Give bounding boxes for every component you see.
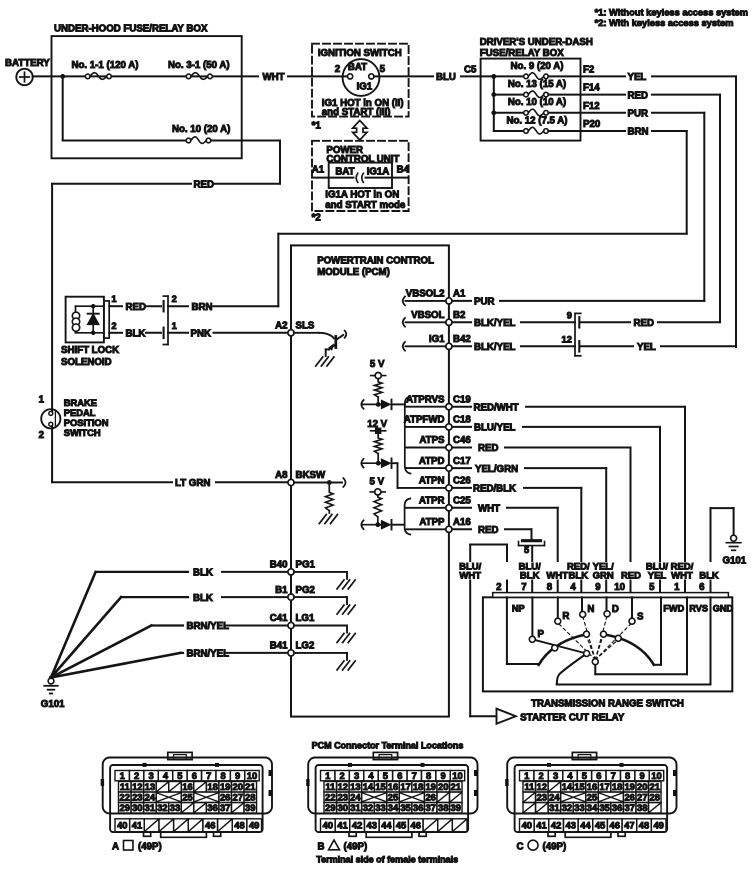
svg-text:FWD: FWD: [663, 604, 684, 614]
svg-text:34: 34: [388, 802, 399, 813]
svg-text:B1: B1: [275, 585, 288, 596]
svg-text:37: 37: [425, 802, 435, 813]
svg-text:GRN: GRN: [593, 571, 614, 582]
svg-text:47: 47: [624, 819, 634, 830]
svg-text:40: 40: [117, 819, 127, 830]
svg-text:16: 16: [388, 781, 398, 792]
svg-text:49: 49: [249, 819, 259, 830]
svg-text:2: 2: [539, 770, 544, 781]
svg-text:10: 10: [614, 582, 625, 593]
svg-text:LG1: LG1: [296, 613, 315, 624]
svg-text:ATPD: ATPD: [419, 456, 445, 467]
svg-text:20: 20: [637, 781, 647, 792]
svg-text:B40: B40: [270, 560, 288, 571]
svg-text:No. 1-1 (120 A): No. 1-1 (120 A): [72, 60, 139, 71]
svg-text:No. 10 (20 A): No. 10 (20 A): [172, 124, 230, 135]
svg-text:1: 1: [111, 293, 116, 304]
svg-text:4: 4: [163, 770, 169, 781]
svg-text:9: 9: [567, 310, 572, 320]
svg-text:49: 49: [653, 819, 663, 830]
svg-text:17: 17: [599, 781, 609, 792]
svg-text:30: 30: [132, 802, 142, 813]
svg-text:B: B: [318, 842, 325, 853]
svg-text:ATPP: ATPP: [419, 517, 445, 528]
svg-text:VBSOL: VBSOL: [411, 310, 444, 321]
svg-text:RED/BLK: RED/BLK: [473, 484, 516, 495]
svg-text:S: S: [637, 612, 644, 623]
svg-text:43: 43: [566, 819, 576, 830]
svg-text:39: 39: [245, 802, 255, 813]
svg-text:10: 10: [247, 770, 257, 781]
svg-text:FUSE/RELAY BOX: FUSE/RELAY BOX: [480, 48, 565, 59]
svg-text:A1: A1: [453, 289, 466, 300]
svg-text:32: 32: [562, 802, 572, 813]
svg-text:PG2: PG2: [296, 585, 315, 596]
svg-text:2: 2: [496, 582, 501, 593]
svg-text:*2: *2: [312, 213, 321, 224]
svg-text:42: 42: [551, 819, 561, 830]
svg-text:BLK/YEL: BLK/YEL: [474, 318, 516, 329]
svg-text:45: 45: [396, 819, 406, 830]
svg-text:PNK: PNK: [191, 329, 211, 340]
svg-text:4: 4: [368, 770, 374, 781]
svg-text:46: 46: [205, 819, 215, 830]
svg-text:22: 22: [120, 792, 130, 803]
svg-text:NP: NP: [512, 604, 525, 614]
svg-text:11: 11: [524, 781, 534, 792]
svg-text:13: 13: [350, 781, 360, 792]
svg-text:41: 41: [337, 819, 347, 830]
svg-text:29: 29: [120, 802, 130, 813]
svg-text:B42: B42: [453, 334, 471, 345]
svg-text:C46: C46: [453, 435, 471, 446]
svg-text:24: 24: [145, 792, 156, 803]
svg-text:8: 8: [625, 770, 630, 781]
svg-text:No. 12 (7.5 A): No. 12 (7.5 A): [506, 115, 567, 126]
svg-text:2: 2: [134, 770, 139, 781]
svg-text:4: 4: [570, 582, 576, 593]
svg-text:BAT: BAT: [335, 166, 354, 177]
svg-text:44: 44: [580, 819, 591, 830]
svg-text:5: 5: [383, 770, 388, 781]
svg-text:*1: *1: [312, 121, 322, 132]
svg-text:22: 22: [325, 792, 335, 803]
svg-text:12: 12: [338, 781, 348, 792]
svg-text:BLK: BLK: [569, 571, 589, 582]
svg-text:RED: RED: [478, 525, 498, 536]
svg-text:9: 9: [639, 770, 644, 781]
svg-text:5: 5: [177, 770, 182, 781]
svg-text:35: 35: [599, 802, 609, 813]
svg-text:PUR: PUR: [628, 109, 648, 120]
svg-text:C5: C5: [464, 65, 477, 76]
svg-text:and START (III): and START (III): [322, 107, 391, 118]
svg-text:WHT: WHT: [459, 571, 481, 582]
svg-text:21: 21: [451, 781, 461, 792]
svg-text:and START mode: and START mode: [325, 200, 406, 211]
svg-text:15: 15: [574, 781, 584, 792]
svg-text:PCM Connector Terminal Locatio: PCM Connector Terminal Locations: [312, 741, 464, 751]
svg-text:33: 33: [375, 802, 385, 813]
svg-text:8: 8: [547, 582, 553, 593]
svg-text:POWERTRAIN CONTROL: POWERTRAIN CONTROL: [317, 256, 434, 267]
svg-text:WHT: WHT: [671, 571, 693, 582]
svg-text:C25: C25: [453, 496, 471, 507]
svg-text:26: 26: [624, 792, 634, 803]
svg-text:3: 3: [354, 770, 359, 781]
svg-text:R: R: [562, 611, 569, 622]
svg-text:37: 37: [220, 802, 230, 813]
svg-text:16: 16: [182, 781, 192, 792]
svg-text:32: 32: [363, 802, 373, 813]
svg-text:20: 20: [233, 781, 243, 792]
svg-text:34: 34: [587, 802, 598, 813]
svg-text:A2: A2: [275, 321, 287, 332]
svg-text:6: 6: [192, 770, 197, 781]
svg-text:BRN/YEL: BRN/YEL: [187, 649, 230, 660]
svg-text:TRANSMISSION RANGE SWITCH: TRANSMISSION RANGE SWITCH: [531, 699, 684, 710]
svg-text:1: 1: [674, 582, 680, 593]
svg-text:35: 35: [400, 802, 410, 813]
svg-text:YEL: YEL: [637, 342, 656, 353]
svg-text:ATPR: ATPR: [419, 496, 445, 507]
svg-text:WHT: WHT: [546, 571, 568, 582]
svg-text:BLK: BLK: [520, 571, 540, 582]
svg-text:BLK: BLK: [699, 571, 719, 582]
svg-text:BAT: BAT: [348, 62, 367, 73]
svg-text:IG1: IG1: [357, 82, 373, 93]
svg-text:6: 6: [699, 582, 705, 593]
svg-text:RED: RED: [194, 179, 214, 190]
svg-text:7: 7: [206, 770, 211, 781]
svg-text:RED: RED: [478, 443, 498, 454]
svg-text:42: 42: [352, 819, 362, 830]
svg-text:2: 2: [340, 770, 345, 781]
svg-text:IG1A: IG1A: [367, 166, 390, 177]
svg-text:31: 31: [145, 802, 155, 813]
svg-text:37: 37: [624, 802, 634, 813]
svg-text:(49P): (49P): [344, 842, 368, 853]
svg-text:No. 9 (20 A): No. 9 (20 A): [511, 61, 564, 72]
svg-text:36: 36: [612, 802, 622, 813]
svg-text:12: 12: [562, 334, 572, 344]
svg-text:23: 23: [132, 792, 142, 803]
svg-text:27: 27: [637, 792, 647, 803]
svg-text:48: 48: [639, 819, 649, 830]
svg-text:B41: B41: [270, 641, 288, 652]
svg-text:41: 41: [132, 819, 142, 830]
svg-text:17: 17: [400, 781, 410, 792]
svg-text:36: 36: [413, 802, 423, 813]
svg-text:11: 11: [120, 781, 130, 792]
svg-text:C26: C26: [453, 476, 471, 487]
svg-text:2: 2: [335, 64, 340, 75]
svg-text:WHT: WHT: [263, 72, 285, 83]
svg-text:YEL: YEL: [628, 72, 647, 83]
svg-text:BRN/YEL: BRN/YEL: [187, 621, 230, 632]
svg-text:6: 6: [596, 770, 601, 781]
svg-text:No. 10 (10 A): No. 10 (10 A): [508, 97, 566, 108]
svg-text:12: 12: [132, 781, 142, 792]
svg-text:LG2: LG2: [296, 641, 315, 652]
svg-text:1: 1: [39, 394, 45, 405]
svg-text:VBSOL2: VBSOL2: [406, 289, 445, 300]
svg-text:5: 5: [582, 770, 587, 781]
svg-text:7: 7: [521, 582, 526, 593]
svg-text:RED: RED: [634, 318, 654, 329]
svg-text:10: 10: [452, 770, 462, 781]
svg-text:31: 31: [350, 802, 360, 813]
svg-text:A16: A16: [453, 517, 471, 528]
svg-text:G101: G101: [41, 699, 65, 710]
svg-text:21: 21: [650, 781, 660, 792]
svg-text:ATPRVS: ATPRVS: [406, 394, 445, 405]
svg-text:ATPN: ATPN: [419, 476, 445, 487]
svg-text:MODULE (PCM): MODULE (PCM): [317, 267, 390, 278]
svg-text:1: 1: [172, 321, 177, 331]
svg-text:1: 1: [524, 770, 529, 781]
svg-text:IG1: IG1: [429, 334, 445, 345]
svg-text:D: D: [612, 604, 619, 615]
svg-text:2: 2: [39, 430, 44, 441]
svg-text:RED/WHT: RED/WHT: [474, 402, 519, 413]
svg-text:A: A: [112, 842, 119, 853]
svg-text:BLK: BLK: [126, 329, 146, 340]
svg-text:BLK/YEL: BLK/YEL: [474, 342, 516, 353]
svg-text:P20: P20: [583, 119, 600, 130]
svg-text:9: 9: [595, 582, 601, 593]
svg-text:38: 38: [438, 802, 448, 813]
svg-text:3: 3: [148, 770, 153, 781]
svg-text:3: 3: [553, 770, 558, 781]
svg-text:ATPS: ATPS: [419, 435, 445, 446]
svg-text:7: 7: [412, 770, 417, 781]
svg-text:9: 9: [440, 770, 445, 781]
svg-text:28: 28: [245, 792, 255, 803]
svg-text:PG1: PG1: [296, 560, 316, 571]
svg-text:SLS: SLS: [296, 321, 315, 332]
svg-text:SWITCH: SWITCH: [64, 427, 101, 438]
svg-text:(49P): (49P): [138, 842, 162, 853]
svg-text:25: 25: [182, 792, 192, 803]
svg-text:15: 15: [375, 781, 385, 792]
svg-text:21: 21: [245, 781, 255, 792]
svg-text:2: 2: [111, 320, 116, 331]
svg-text:No. 13 (15 A): No. 13 (15 A): [508, 79, 566, 90]
svg-text:F14: F14: [583, 83, 600, 94]
svg-text:7: 7: [611, 770, 616, 781]
svg-text:39: 39: [451, 802, 461, 813]
svg-text:ATPFWD: ATPFWD: [404, 415, 445, 426]
svg-text:C: C: [517, 842, 524, 853]
svg-text:5: 5: [524, 545, 529, 555]
svg-text:BRN: BRN: [628, 127, 649, 138]
svg-text:BKSW: BKSW: [296, 470, 326, 481]
svg-text:C41: C41: [270, 613, 288, 624]
svg-text:5 V: 5 V: [370, 359, 385, 370]
svg-text:*2: With keyless access system: *2: With keyless access system: [595, 18, 734, 28]
svg-text:N: N: [587, 604, 594, 615]
svg-text:10: 10: [651, 770, 661, 781]
svg-text:43: 43: [367, 819, 377, 830]
svg-text:14: 14: [562, 781, 573, 792]
svg-text:23: 23: [338, 792, 348, 803]
svg-text:4: 4: [567, 770, 573, 781]
svg-text:P: P: [538, 629, 545, 640]
svg-text:31: 31: [549, 802, 559, 813]
svg-text:41: 41: [536, 819, 546, 830]
svg-text:BATTERY: BATTERY: [5, 58, 50, 69]
svg-text:14: 14: [363, 781, 374, 792]
svg-text:19: 19: [425, 781, 435, 792]
svg-text:30: 30: [338, 802, 348, 813]
svg-text:C18: C18: [453, 415, 471, 426]
svg-text:16: 16: [587, 781, 597, 792]
svg-text:5: 5: [380, 64, 386, 75]
svg-text:19: 19: [624, 781, 634, 792]
svg-text:F2: F2: [583, 64, 594, 75]
svg-text:46: 46: [411, 819, 421, 830]
svg-text:18: 18: [207, 781, 217, 792]
svg-text:25: 25: [388, 792, 398, 803]
svg-text:5 V: 5 V: [370, 477, 385, 488]
svg-text:20: 20: [438, 781, 448, 792]
svg-text:DRIVER'S UNDER-DASH: DRIVER'S UNDER-DASH: [480, 37, 593, 48]
svg-text:BRN: BRN: [192, 302, 213, 313]
svg-text:A1: A1: [312, 164, 325, 175]
svg-text:33: 33: [574, 802, 584, 813]
svg-text:23: 23: [537, 792, 547, 803]
svg-text:YEL/GRN: YEL/GRN: [475, 464, 518, 475]
svg-text:GND: GND: [713, 604, 734, 614]
svg-text:RVS: RVS: [689, 604, 708, 614]
svg-text:YEL: YEL: [648, 571, 667, 582]
svg-text:1: 1: [325, 770, 330, 781]
svg-text:RED: RED: [628, 90, 648, 101]
svg-text:G101: G101: [723, 555, 747, 566]
svg-text:2: 2: [172, 294, 177, 304]
svg-text:UNDER-HOOD FUSE/RELAY BOX: UNDER-HOOD FUSE/RELAY BOX: [54, 24, 208, 35]
svg-text:33: 33: [170, 802, 180, 813]
svg-text:BLK: BLK: [193, 568, 213, 579]
svg-text:38: 38: [637, 802, 647, 813]
svg-text:PUR: PUR: [474, 297, 494, 308]
svg-text:5: 5: [649, 582, 655, 593]
svg-text:36: 36: [207, 802, 217, 813]
svg-text:F12: F12: [583, 101, 600, 112]
svg-text:18: 18: [612, 781, 622, 792]
svg-text:SOLENOID: SOLENOID: [61, 357, 112, 368]
svg-text:24: 24: [549, 792, 560, 803]
svg-text:LT GRN: LT GRN: [175, 478, 210, 489]
svg-text:1: 1: [120, 770, 125, 781]
svg-text:27: 27: [233, 792, 243, 803]
svg-text:40: 40: [323, 819, 333, 830]
svg-text:BLU: BLU: [436, 72, 456, 83]
svg-text:BLK: BLK: [193, 593, 213, 604]
svg-text:B2: B2: [453, 310, 465, 321]
svg-text:*1: Without keyless access sys: *1: Without keyless access system: [595, 8, 748, 18]
svg-text:11: 11: [325, 781, 335, 792]
svg-text:(49P): (49P): [543, 842, 567, 853]
svg-text:26: 26: [220, 792, 230, 803]
svg-text:46: 46: [610, 819, 620, 830]
svg-text:C17: C17: [453, 456, 471, 467]
svg-text:29: 29: [325, 802, 335, 813]
svg-text:24: 24: [350, 792, 361, 803]
svg-text:Terminal side of female termin: Terminal side of female terminals: [316, 855, 458, 865]
svg-text:45: 45: [595, 819, 605, 830]
svg-text:19: 19: [220, 781, 230, 792]
svg-text:C19: C19: [453, 394, 471, 405]
svg-text:BLU/YEL: BLU/YEL: [474, 423, 516, 434]
svg-text:8: 8: [426, 770, 431, 781]
svg-text:A8: A8: [275, 470, 288, 481]
svg-text:6: 6: [397, 770, 402, 781]
svg-text:28: 28: [650, 792, 660, 803]
svg-text:WHT: WHT: [478, 504, 500, 515]
svg-text:RED: RED: [621, 571, 641, 582]
svg-text:32: 32: [157, 802, 167, 813]
svg-text:8: 8: [221, 770, 226, 781]
svg-text:No. 3-1 (50 A): No. 3-1 (50 A): [168, 60, 230, 71]
svg-text:40: 40: [522, 819, 532, 830]
svg-text:18: 18: [413, 781, 423, 792]
svg-text:48: 48: [234, 819, 244, 830]
svg-text:9: 9: [235, 770, 240, 781]
svg-text:SHIFT LOCK: SHIFT LOCK: [61, 345, 119, 356]
svg-text:26: 26: [425, 792, 435, 803]
svg-text:STARTER CUT RELAY: STARTER CUT RELAY: [520, 712, 625, 723]
svg-text:RED: RED: [126, 302, 146, 313]
svg-text:25: 25: [587, 792, 597, 803]
svg-text:13: 13: [145, 781, 155, 792]
svg-text:12: 12: [537, 781, 547, 792]
svg-text:44: 44: [381, 819, 392, 830]
svg-text:IGNITION SWITCH: IGNITION SWITCH: [318, 48, 402, 59]
svg-text:B4: B4: [397, 164, 410, 175]
